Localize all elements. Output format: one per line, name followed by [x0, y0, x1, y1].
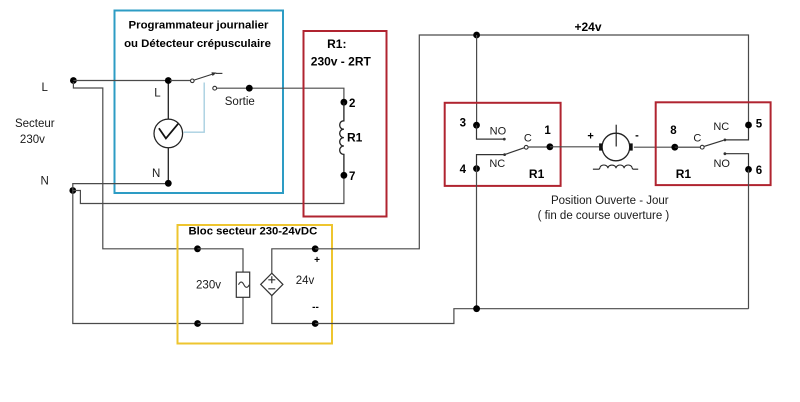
svg-text:+24v: +24v: [574, 20, 601, 34]
svg-text:Position Ouverte - Jour: Position Ouverte - Jour: [551, 195, 669, 207]
box Bloc secteur 230-24vDC: [178, 225, 333, 344]
switch arm + pivot C (left relay): [505, 133, 532, 155]
wire N to bloc secteur 230v input: [73, 191, 195, 324]
node Sortie: [246, 85, 253, 92]
svg-text:2: 2: [349, 98, 355, 110]
contact NO (right relay): [713, 152, 748, 170]
svg-text:( fin de course ouverture ): ( fin de course ouverture ): [538, 210, 670, 222]
node 6: [745, 165, 762, 177]
output contact + wire to Sortie: [213, 86, 344, 108]
relay contacts box R1 (left): [445, 103, 561, 186]
wire +24v junction to contact 3: [476, 35, 478, 125]
svg-text:4: 4: [460, 164, 467, 176]
node clock N: [165, 180, 172, 187]
svg-text:6: 6: [756, 165, 762, 177]
label N: [41, 176, 49, 188]
svg-text:N: N: [41, 176, 49, 188]
svg-text:L: L: [41, 82, 48, 94]
svg-text:C: C: [524, 133, 532, 145]
svg-text:5: 5: [756, 118, 763, 130]
label 24v: [296, 275, 315, 287]
wire +24v rail: [315, 35, 748, 249]
label R1 (left relay): [529, 167, 545, 181]
wire motor to node 8: [634, 146, 675, 148]
contact NO (left relay): [477, 125, 507, 140]
svg-text:8: 8: [670, 125, 677, 137]
clock/timer symbol: [152, 81, 183, 184]
svg-text:R1: R1: [347, 131, 363, 145]
junction +24v: [473, 32, 480, 39]
control link clock to switch (light blue): [184, 83, 205, 133]
label +24v: [574, 20, 601, 34]
svg-text:R1: R1: [676, 167, 692, 181]
wire L to clock input: [73, 80, 168, 82]
svg-text:1: 1: [544, 125, 551, 137]
label L: [41, 82, 48, 94]
wire contact 4 to 0v rail: [476, 169, 478, 309]
wire N to R1 coil pin 7: [73, 175, 344, 203]
svg-text:NO: NO: [713, 158, 730, 170]
svg-text:ou Détecteur crépusculaire: ou Détecteur crépusculaire: [124, 38, 271, 50]
node clock L: [165, 77, 172, 84]
node 1: [528, 125, 553, 150]
junction 0v: [473, 305, 480, 312]
node 7: [341, 171, 356, 183]
pivot C + arm (right relay): [675, 133, 724, 150]
svg-text:NO: NO: [490, 126, 507, 138]
node 2: [341, 98, 356, 110]
label R1 (right relay): [676, 167, 692, 181]
svg-text:+: +: [587, 131, 593, 143]
coil R1: [340, 102, 363, 175]
svg-text:C: C: [693, 133, 701, 145]
svg-text:Programmateur journalier: Programmateur journalier: [129, 20, 269, 32]
wire node 1 to motor: [550, 146, 599, 148]
caption Position Ouverte - Jour: [538, 195, 670, 222]
node L secteur: [70, 77, 77, 84]
svg-text:Bloc secteur 230-24vDC: Bloc secteur 230-24vDC: [189, 226, 318, 238]
box R1: 230v - 2RT: [304, 31, 387, 217]
svg-text:3: 3: [460, 118, 466, 130]
svg-text:230v: 230v: [196, 280, 221, 292]
AC source 230v: [198, 249, 250, 324]
node 8: [670, 125, 678, 151]
contact NC (right relay): [713, 121, 748, 141]
box: Programmateur journalier / Detecteur crepusculaire: [115, 11, 284, 194]
motor M: [587, 125, 639, 170]
switch (clock output): [170, 73, 222, 83]
svg-text:--: --: [312, 302, 319, 313]
node 24v - output: [312, 302, 319, 327]
svg-text:7: 7: [349, 171, 355, 183]
node 24v + output: [312, 245, 320, 266]
node 230v input bottom: [194, 320, 201, 327]
node 3: [460, 118, 480, 130]
node N secteur: [69, 187, 76, 194]
wire L to bloc secteur 230v input: [73, 82, 194, 249]
svg-text:R1:: R1:: [327, 37, 346, 51]
svg-text:+: +: [314, 255, 320, 266]
svg-text:24v: 24v: [296, 275, 315, 287]
svg-text:-: -: [635, 129, 639, 141]
svg-text:L: L: [154, 88, 161, 100]
contact NC (left relay): [477, 153, 507, 170]
svg-text:R1: R1: [529, 167, 545, 181]
node 4: [460, 164, 480, 176]
wire 0v rail: [315, 309, 748, 324]
node 230v input top: [194, 245, 201, 252]
svg-text:N: N: [152, 168, 160, 180]
wire N to clock N: [73, 184, 169, 191]
svg-text:Sortie: Sortie: [225, 96, 255, 108]
label Secteur 230v: [15, 118, 55, 146]
svg-text:NC: NC: [489, 158, 505, 170]
svg-text:Secteur: Secteur: [15, 118, 55, 130]
node 5: [745, 118, 763, 130]
relay contacts box R1 (right): [656, 102, 771, 185]
svg-text:230v - 2RT: 230v - 2RT: [311, 55, 372, 69]
svg-text:230v: 230v: [20, 134, 45, 146]
wire node 6 to 0v rail: [748, 169, 750, 308]
DC source 24v (diamond): [261, 249, 316, 324]
svg-text:NC: NC: [713, 121, 729, 133]
label 230v: [196, 280, 221, 292]
